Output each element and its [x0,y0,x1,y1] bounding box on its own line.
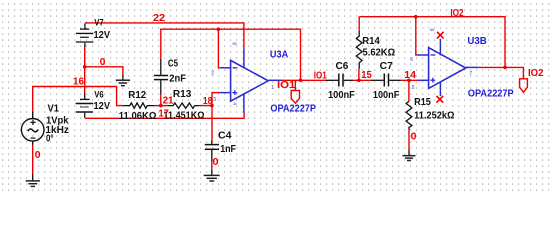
svg-text:R13: R13 [173,89,192,100]
svg-text:5.62KΩ: 5.62KΩ [363,47,396,58]
svg-text:6: 6 [410,57,413,63]
node 14 junction [407,79,411,83]
connector IO2 [520,79,528,93]
wire C5 bottom lead red [160,94,162,105]
svg-text:11.252kΩ: 11.252kΩ [414,111,454,122]
svg-text:C6: C6 [336,61,349,72]
svg-text:11.06KΩ: 11.06KΩ [119,111,157,122]
svg-text:5: 5 [412,85,415,91]
svg-text:IO2: IO2 [528,68,544,79]
wire IO2 feedback top [359,17,505,68]
capacitor C7 [371,74,402,87]
wire node18 down to C4 [211,106,213,141]
wire C7 to U3B plus net14 [401,79,417,81]
svg-text:12V: 12V [94,30,111,41]
svg-text:22: 22 [153,13,165,24]
svg-text:IO2: IO2 [450,8,464,19]
svg-text:IO1: IO1 [314,70,327,81]
svg-text:11.451KΩ: 11.451KΩ [164,111,205,122]
node 18 junction [210,104,214,108]
capacitor C5 [154,59,168,94]
wire R14 top red [358,17,360,31]
wire feedback1 [161,29,301,80]
svg-text:2: 2 [211,71,214,77]
svg-text:0: 0 [35,150,41,161]
wire inv input U3A [217,29,220,68]
wire IO1 connector stem [294,80,296,90]
ground V1 [26,174,40,186]
wire net16 V1 to R12 [33,87,123,112]
svg-text:0: 0 [100,57,106,68]
svg-text:U3B: U3B [467,36,486,47]
svg-text:V1: V1 [48,104,60,115]
svg-text:0: 0 [213,157,219,168]
connector IO1 [291,91,299,104]
capacitor C4 [205,141,219,162]
svg-text:18: 18 [203,96,213,107]
svg-text:14: 14 [404,70,416,81]
X marker bottom pin U3B [437,96,444,103]
capacitor C6 [325,74,353,87]
wire inv input U3B [416,17,417,55]
resistor R14 [356,31,362,69]
svg-text:V6: V6 [94,90,103,100]
op-amp U3A [219,48,281,112]
wire U3B output [479,67,524,78]
wire output IO1 [282,79,326,81]
wire net14 down to R15 [408,80,410,101]
svg-text:OPA2227P: OPA2227P [468,88,514,99]
wire node21 segment [155,105,168,107]
wire C6 to C7 net15 [353,79,370,81]
wire net0 to ground [85,67,123,75]
battery V7 [76,24,94,48]
svg-text:100nF: 100nF [373,90,399,101]
battery V6 [76,93,94,117]
wire V1 bottom red [32,144,34,175]
wire V7 bottom to net0 [84,47,86,67]
wire C4 bottom red [211,162,213,170]
ground C4 [204,170,220,181]
node 15 junction [357,79,361,83]
resistor R12 [123,103,155,108]
svg-text:16: 16 [73,77,84,88]
svg-text:V7: V7 [94,18,103,28]
source V1 [21,112,44,145]
wire net15 up to R14 [358,69,360,80]
node U3B out junction [503,66,507,70]
svg-text:0: 0 [411,132,417,143]
svg-text:21: 21 [163,95,174,106]
svg-text:C7: C7 [380,61,394,72]
wire net0 to V6 [84,67,86,94]
node net0 junction [83,65,87,69]
svg-text:4: 4 [231,102,237,105]
svg-text:8: 8 [428,28,434,31]
node 22-junction [217,27,221,31]
wire node18 R13 to plus input [200,93,220,106]
svg-text:R15: R15 [414,97,431,108]
wire R15 bottom red [408,130,410,150]
svg-text:15: 15 [361,70,372,81]
svg-text:3: 3 [213,97,216,103]
resistor R13 [167,103,199,108]
wire negative supply rail [85,112,244,118]
svg-text:17: 17 [159,108,170,119]
svg-text:U3A: U3A [270,49,288,60]
node IO2 fb junction [414,15,418,19]
svg-text:1: 1 [271,85,274,91]
svg-text:12V: 12V [94,101,111,112]
ground R15 [403,150,416,161]
X marker top pin U3B [437,32,444,39]
wire net22 top [85,23,244,49]
svg-text:OPA2227P: OPA2227P [270,104,316,115]
op-amp U3B [417,39,479,96]
node 21 junction [159,104,163,108]
svg-text:100nF: 100nF [328,90,355,101]
svg-text:R14: R14 [362,36,380,47]
resistor R15 [406,101,412,130]
node out junction [299,79,303,83]
svg-text:1nF: 1nF [220,144,236,155]
svg-text:IO1: IO1 [277,80,296,91]
svg-text:8: 8 [231,42,237,45]
svg-text:R12: R12 [128,90,146,101]
svg-text:7: 7 [469,71,472,77]
ground net0 [116,75,130,86]
svg-text:C4: C4 [218,131,232,142]
svg-text:0°: 0° [46,134,54,145]
svg-text:2nF: 2nF [169,74,186,85]
svg-text:C5: C5 [168,58,179,69]
